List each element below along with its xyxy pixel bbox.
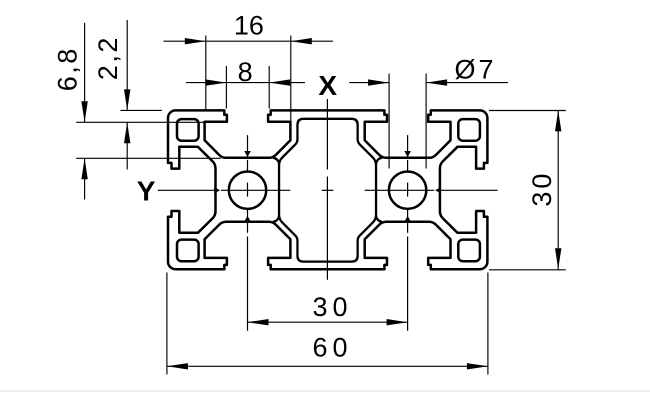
dimension text 16 (234, 11, 264, 41)
dimension text 8 (238, 57, 253, 87)
extension line slot floor level (76, 157, 221, 159)
dimension 60 (overall width) lines and arrows (167, 273, 488, 375)
corner screw channel square top-left (177, 119, 199, 141)
dimension text Ø7 (454, 54, 493, 84)
dimension text 60 (312, 332, 347, 362)
dimension 8 (slot mouth) lines and arrows (186, 66, 305, 109)
svg-text:6,8: 6,8 (53, 49, 83, 92)
extension line lip underside level (76, 121, 205, 123)
axis label Y (137, 175, 156, 206)
corner screw channel square bottom-right (458, 240, 480, 262)
slot axis markers left hole (244, 151, 251, 222)
svg-text:Y: Y (137, 175, 156, 206)
slot axis marker left (214, 187, 220, 193)
dimension 2,2 lines and arrows (124, 20, 130, 170)
svg-text:Ø7: Ø7 (454, 54, 493, 84)
dimension text 30 bottom (312, 292, 347, 322)
dimension text 30 right (527, 174, 557, 207)
centerline through right hole (407, 135, 409, 331)
dimension 6,8 lines and arrows (81, 23, 87, 200)
slot axis markers right hole (404, 151, 411, 222)
faint page boundary line (0, 390, 650, 392)
corner screw channel square bottom-left (177, 240, 199, 262)
central cavity contour (279, 119, 376, 262)
extension line top face level (120, 109, 162, 111)
dimension 30 (hole spacing) line and arrows (248, 319, 408, 325)
corner screw channel square top-right (458, 119, 480, 141)
axis label X (318, 70, 337, 101)
centerline through left hole (247, 135, 249, 331)
svg-text:30: 30 (312, 292, 347, 322)
centerline Y axis horizontal (158, 189, 498, 191)
svg-text:60: 60 (312, 332, 347, 362)
centerline X axis vertical (326, 99, 328, 280)
dimension 16 (slot T-width) lines and arrows (164, 36, 334, 123)
core hole left Ø7 (229, 171, 266, 208)
core hole right Ø7 (389, 171, 426, 208)
slot axis marker right (435, 187, 441, 193)
dimension text 6,8 (53, 49, 83, 92)
svg-text:8: 8 (238, 57, 253, 87)
svg-text:30: 30 (527, 174, 557, 207)
dimension 30 (overall height) lines and arrows (489, 110, 566, 269)
svg-text:16: 16 (234, 11, 264, 41)
svg-text:2,2: 2,2 (93, 38, 123, 81)
web fillets joining hole bosses to central cavity walls (273, 158, 382, 222)
dimension Ø7 (core hole) lines and arrows (349, 74, 508, 169)
svg-text:X: X (318, 70, 337, 101)
dimension text 2,2 (93, 38, 123, 81)
profile outer contour with T-slot cavities (168, 110, 487, 269)
